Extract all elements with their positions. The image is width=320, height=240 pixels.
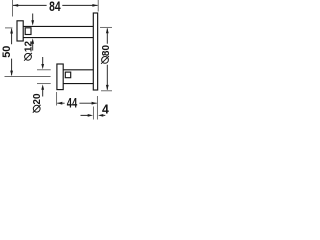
svg-text:44: 44 (67, 94, 78, 110)
svg-text:20: 20 (32, 93, 43, 105)
svg-text:4: 4 (102, 102, 109, 116)
svg-text:80: 80 (101, 45, 112, 57)
svg-text:50: 50 (1, 46, 13, 58)
svg-text:12: 12 (24, 41, 35, 53)
svg-text:84: 84 (49, 0, 61, 14)
